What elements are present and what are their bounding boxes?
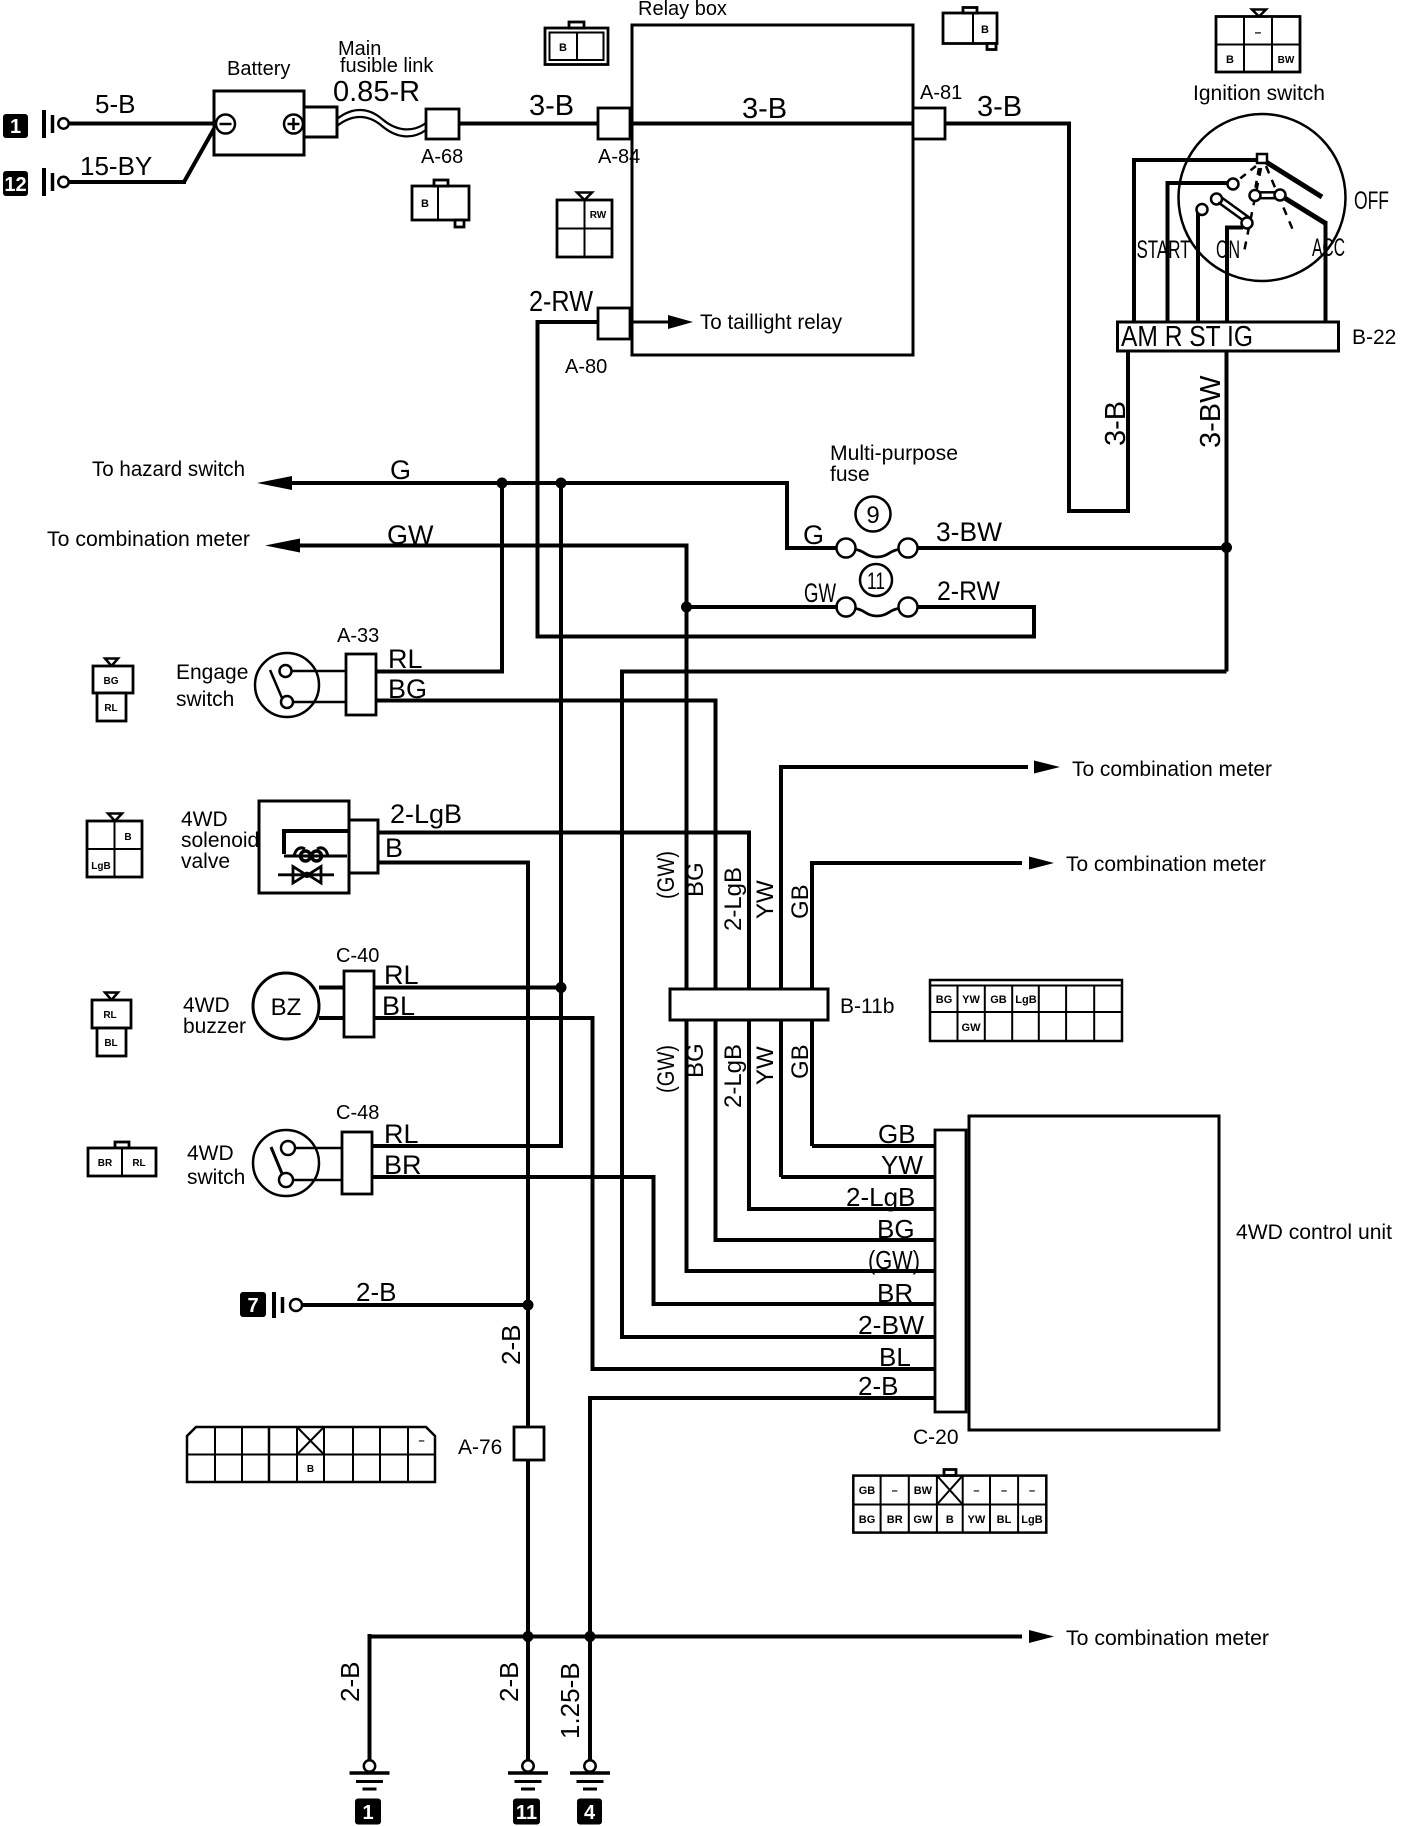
svg-text:2-RW: 2-RW	[937, 576, 1000, 606]
4WD switch	[187, 1130, 342, 1196]
svg-text:3-B: 3-B	[977, 91, 1022, 123]
svg-text:(GW): (GW)	[653, 851, 680, 899]
svg-text:A-76: A-76	[458, 1436, 502, 1459]
svg-text:3-B: 3-B	[529, 90, 574, 122]
ground 7	[240, 1292, 302, 1318]
svg-text:2-RW: 2-RW	[529, 286, 594, 318]
svg-text:4WD: 4WD	[183, 994, 230, 1017]
svg-text:2-LgB: 2-LgB	[720, 1044, 747, 1108]
svg-text:BR: BR	[384, 1150, 422, 1180]
svg-text:BZ: BZ	[271, 994, 302, 1021]
connector icon B LgB (solenoid)	[87, 814, 142, 878]
wire 3-BW to 2-BW (to C-20)	[622, 672, 1227, 1341]
svg-text:12: 12	[4, 174, 26, 196]
node ground 7 junction	[523, 1300, 534, 1311]
svg-text:Battery: Battery	[227, 58, 290, 80]
svg-text:A-84: A-84	[598, 146, 640, 168]
svg-text:YW: YW	[752, 1046, 779, 1085]
node GW junction	[681, 602, 692, 613]
ground bus (to combination meter)	[370, 1627, 1270, 1650]
svg-text:B: B	[981, 24, 989, 36]
connector B-11b	[670, 989, 894, 1020]
svg-text:B: B	[946, 1514, 954, 1526]
fuse 9	[803, 497, 1003, 558]
svg-text:G: G	[390, 455, 411, 485]
svg-text:3-B: 3-B	[742, 93, 787, 125]
svg-text:RW: RW	[590, 210, 607, 221]
svg-text:switch: switch	[187, 1166, 245, 1189]
wire 2-LgB (solenoid to C-20)	[378, 799, 935, 1212]
svg-text:15-BY: 15-BY	[80, 151, 152, 181]
relay box	[632, 0, 913, 355]
node ground bus junction (2-B)	[523, 1631, 534, 1642]
wire 5-B	[69, 89, 216, 124]
ground 12	[3, 168, 69, 196]
svg-text:3-B: 3-B	[1100, 401, 1132, 446]
svg-text:GW: GW	[913, 1514, 933, 1526]
svg-text:To hazard switch: To hazard switch	[92, 458, 245, 481]
node G / RL branch junction	[556, 478, 567, 489]
svg-text:fuse: fuse	[830, 463, 870, 486]
svg-text:YW: YW	[881, 1150, 923, 1180]
svg-text:B: B	[385, 833, 403, 863]
wire 3-BW (fuse 9 output)	[917, 546, 1227, 550]
svg-text:fusible link: fusible link	[340, 55, 434, 77]
svg-text:3-BW: 3-BW	[1195, 375, 1227, 448]
svg-text:GW: GW	[962, 1022, 982, 1034]
wire 15-BY	[69, 127, 215, 182]
svg-text:2-LgB: 2-LgB	[720, 867, 747, 931]
svg-text:BR: BR	[877, 1278, 913, 1308]
B-11b pin table	[930, 980, 1122, 1041]
svg-text:2-LgB: 2-LgB	[846, 1182, 915, 1212]
svg-text:C-48: C-48	[336, 1102, 379, 1124]
svg-text:7: 7	[247, 1295, 258, 1317]
svg-text:BL: BL	[997, 1514, 1012, 1526]
svg-text:RL: RL	[132, 1158, 145, 1169]
wire GW fuse input	[687, 605, 839, 609]
wire 3-B (A-68 to relay box)	[459, 90, 1069, 124]
wire BR (4WD switch to C-20)	[372, 1150, 935, 1308]
engage switch	[176, 653, 346, 717]
ground 1 (bottom)	[335, 1634, 390, 1825]
svg-text:5-B: 5-B	[95, 89, 135, 119]
svg-text:To combination meter: To combination meter	[1072, 758, 1272, 781]
svg-text:To combination meter: To combination meter	[1066, 1627, 1269, 1650]
svg-text:To combination meter: To combination meter	[47, 528, 250, 551]
svg-text:BG: BG	[682, 862, 709, 897]
ground 1	[3, 110, 69, 138]
svg-text:4: 4	[584, 1802, 596, 1824]
svg-text:Multi-purpose: Multi-purpose	[830, 442, 958, 465]
svg-text:RL: RL	[384, 1119, 419, 1149]
connector icon B (near A-68)	[412, 180, 469, 227]
svg-text:0.85-R: 0.85-R	[333, 76, 420, 108]
svg-text:11: 11	[867, 568, 885, 595]
wire 3-B (through relay box)	[632, 93, 913, 125]
svg-text:–: –	[418, 1435, 424, 1447]
svg-text:4WD control unit: 4WD control unit	[1236, 1221, 1392, 1244]
svg-text:B: B	[307, 1464, 314, 1475]
svg-text:Ignition switch: Ignition switch	[1193, 82, 1325, 105]
wire 2-B (C-20 to ground bus)	[590, 1371, 935, 1637]
svg-text:B: B	[1226, 54, 1234, 66]
svg-text:BG: BG	[936, 994, 953, 1006]
svg-text:LgB: LgB	[1015, 994, 1036, 1006]
ignition switch connector icon	[1216, 10, 1300, 73]
svg-text:buzzer: buzzer	[183, 1015, 246, 1038]
wire 2-RW (A-80 to fuse 11 input)	[529, 286, 1034, 637]
svg-text:B: B	[124, 832, 131, 843]
svg-text:11: 11	[516, 1802, 537, 1824]
svg-text:(GW): (GW)	[868, 1245, 920, 1275]
svg-text:To taillight relay: To taillight relay	[700, 311, 842, 334]
svg-text:BW: BW	[1278, 55, 1295, 66]
connector C-20	[913, 1130, 966, 1449]
svg-text:2-B: 2-B	[496, 1325, 526, 1365]
svg-text:2-B: 2-B	[356, 1277, 396, 1307]
svg-text:GB: GB	[787, 1044, 814, 1079]
svg-text:A-81: A-81	[920, 82, 962, 104]
connector C-40	[336, 945, 379, 1037]
svg-text:BG: BG	[682, 1043, 709, 1078]
ground 11	[508, 1760, 548, 1824]
connector C-48	[336, 1102, 379, 1194]
svg-text:GB: GB	[878, 1119, 916, 1149]
svg-text:Relay box: Relay box	[638, 0, 727, 20]
svg-text:A-68: A-68	[421, 146, 463, 168]
connector icon BR RL (4WD switch)	[88, 1142, 156, 1176]
svg-text:A-80: A-80	[565, 356, 607, 378]
node G / engage RL junction	[497, 478, 508, 489]
svg-text:BW: BW	[914, 1485, 933, 1497]
svg-text:C-20: C-20	[913, 1426, 959, 1449]
connector A-33	[337, 625, 379, 715]
connector B-22	[1118, 321, 1397, 353]
svg-text:GB: GB	[990, 994, 1007, 1006]
svg-text:To combination meter: To combination meter	[1066, 853, 1266, 876]
wire BG (engage switch to C-20)	[376, 674, 935, 1244]
svg-text:Engage: Engage	[176, 661, 248, 684]
svg-text:2-B: 2-B	[335, 1662, 365, 1702]
svg-text:RL: RL	[384, 960, 419, 990]
svg-text:9: 9	[866, 502, 879, 529]
wire 3-BW (IG to fuse junction)	[1195, 351, 1227, 672]
connector icon BG RL (engage)	[93, 659, 133, 722]
wire YW (to combination meter / C-20)	[752, 758, 1272, 1180]
wire GW (to combination meter)	[47, 520, 687, 607]
svg-text:B-11b: B-11b	[840, 995, 894, 1018]
arrow to taillight relay	[630, 311, 842, 334]
connector icon RW	[557, 193, 612, 258]
svg-text:1: 1	[362, 1802, 373, 1824]
connector A-84	[598, 108, 640, 168]
connector A-76	[458, 1427, 544, 1460]
wire B / 2-B (solenoid to ground 11)	[378, 833, 528, 1762]
multi-purpose fuse label	[830, 442, 958, 486]
svg-text:–: –	[1001, 1485, 1007, 1497]
svg-text:LgB: LgB	[1021, 1514, 1042, 1526]
connector icon RL BL (buzzer)	[92, 993, 131, 1057]
svg-text:–: –	[973, 1485, 979, 1497]
svg-text:OFF: OFF	[1354, 187, 1389, 215]
wire 2-B (ground 7)	[302, 1277, 528, 1307]
ground 4	[555, 1637, 610, 1825]
svg-text:YW: YW	[968, 1514, 986, 1526]
svg-text:YW: YW	[962, 994, 980, 1006]
svg-text:RL: RL	[104, 703, 117, 714]
4WD solenoid valve	[181, 801, 378, 893]
svg-text:2-BW: 2-BW	[858, 1310, 924, 1340]
svg-text:BL: BL	[104, 1038, 117, 1049]
svg-text:LgB: LgB	[91, 861, 110, 872]
svg-text:BG: BG	[104, 676, 119, 687]
svg-text:3-BW: 3-BW	[936, 517, 1003, 547]
svg-text:B-22: B-22	[1352, 326, 1396, 349]
wire RL (buzzer to branch)	[374, 960, 561, 990]
svg-text:4WD: 4WD	[187, 1142, 234, 1165]
svg-text:1: 1	[10, 116, 21, 138]
ignition switch	[1134, 82, 1389, 325]
svg-text:C-40: C-40	[336, 945, 379, 967]
svg-text:BG: BG	[388, 674, 427, 704]
svg-text:2-B: 2-B	[494, 1662, 524, 1702]
svg-text:GB: GB	[859, 1485, 876, 1497]
svg-text:(GW): (GW)	[653, 1045, 680, 1093]
wire GB (to combination meter / C-20)	[787, 853, 1266, 1149]
connector icon B (near A-81)	[943, 8, 997, 50]
svg-text:ACC: ACC	[1312, 234, 1345, 262]
svg-text:G: G	[803, 520, 824, 550]
svg-text:B: B	[421, 198, 429, 210]
wire G (to hazard switch)	[92, 455, 838, 548]
svg-text:1.25-B: 1.25-B	[555, 1662, 585, 1739]
wire GW vertical (to C-20)	[653, 607, 935, 1275]
wire RL branch (G line to buzzer / 4WD switch)	[372, 483, 563, 1146]
svg-text:YW: YW	[752, 880, 779, 919]
node 3-BW junction	[1221, 542, 1232, 553]
svg-text:A-33: A-33	[337, 625, 379, 647]
A-76 pin table	[187, 1427, 435, 1482]
svg-text:GW: GW	[387, 520, 434, 550]
svg-text:4WD: 4WD	[181, 808, 228, 831]
svg-text:AM R ST IG: AM R ST IG	[1121, 321, 1253, 353]
svg-text:BL: BL	[879, 1342, 911, 1372]
svg-text:RL: RL	[388, 644, 423, 674]
node ground bus junction (1.25-B)	[585, 1631, 596, 1642]
svg-text:START: START	[1137, 236, 1191, 264]
wire 3-B (A-81 to ignition AM)	[977, 91, 1132, 511]
svg-text:GB: GB	[787, 884, 814, 919]
svg-text:B: B	[559, 42, 567, 54]
svg-text:valve: valve	[181, 850, 230, 873]
svg-text:RL: RL	[103, 1010, 116, 1021]
svg-text:GW: GW	[804, 578, 836, 608]
node RL buzzer junction	[556, 982, 567, 993]
svg-text:–: –	[1255, 25, 1262, 39]
connector icon B (near A-84)	[545, 22, 608, 65]
fuse 11	[804, 564, 1000, 617]
connector A-68	[421, 109, 463, 168]
4WD buzzer	[183, 973, 344, 1039]
svg-text:switch: switch	[176, 688, 234, 711]
wire BL (buzzer to C-20)	[374, 991, 935, 1372]
C-20 pin table	[853, 1470, 1046, 1533]
svg-text:BG: BG	[877, 1214, 915, 1244]
svg-text:2-B: 2-B	[858, 1371, 898, 1401]
main fusible link 0.85-R	[333, 38, 434, 136]
svg-text:BG: BG	[859, 1514, 876, 1526]
battery	[214, 58, 337, 155]
wire RL (engage switch to G line)	[376, 483, 502, 674]
svg-text:BR: BR	[98, 1158, 113, 1169]
svg-text:–: –	[1029, 1485, 1035, 1497]
connector A-81	[913, 82, 962, 139]
svg-text:–: –	[892, 1485, 898, 1497]
svg-text:2-LgB: 2-LgB	[390, 799, 462, 829]
svg-text:BR: BR	[887, 1514, 903, 1526]
4WD control unit	[969, 1116, 1392, 1430]
svg-text:BL: BL	[382, 991, 415, 1021]
svg-text:solenoid: solenoid	[181, 829, 259, 852]
connector A-80	[565, 308, 630, 378]
svg-text:ON: ON	[1216, 236, 1240, 264]
